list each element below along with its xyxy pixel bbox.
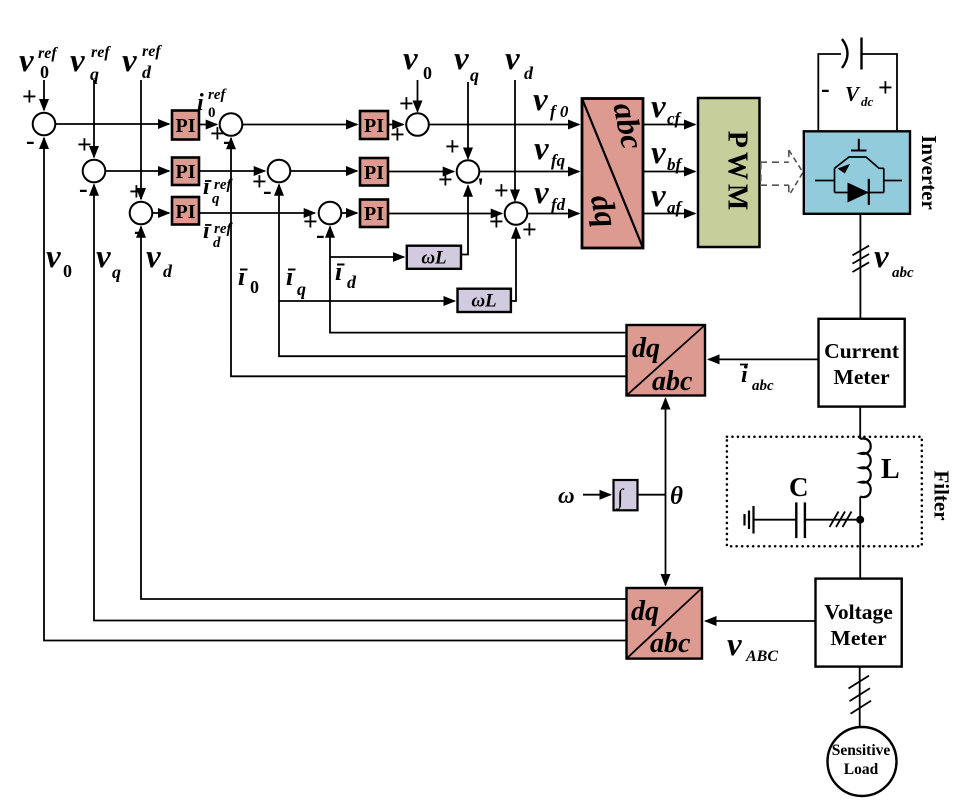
svg-text:v: v xyxy=(727,627,742,663)
current meter block xyxy=(819,319,905,407)
svg-text:': ' xyxy=(477,173,484,202)
svg-text:q: q xyxy=(297,279,306,299)
node three-phase slashes on capacitor branch xyxy=(830,512,852,528)
svg-text:af: af xyxy=(667,198,684,217)
PI controller PI2 xyxy=(172,158,199,186)
wire v0 feedback from dq/abc to summer S1 xyxy=(44,138,627,641)
node v_f0 label xyxy=(533,82,569,121)
wire S3 to PI3 xyxy=(152,212,169,214)
IGBT gate xyxy=(851,139,867,151)
svg-text:fq: fq xyxy=(551,151,566,170)
svg-text:+: + xyxy=(522,215,537,244)
integrator block xyxy=(614,480,638,510)
filter dotted box xyxy=(727,437,922,547)
wire vq down into S8 xyxy=(467,82,469,159)
node iq bar label xyxy=(286,262,306,299)
svg-text:q: q xyxy=(112,262,121,282)
svg-text:Meter: Meter xyxy=(831,626,888,650)
summer S2 (vq) xyxy=(83,160,106,183)
svg-text:-: - xyxy=(79,174,88,203)
node vd feedforward label xyxy=(505,41,534,83)
wire omega to integrator xyxy=(583,494,611,496)
svg-text:v: v xyxy=(70,43,85,79)
sensitive load xyxy=(828,727,897,796)
gain block omega-L 1 xyxy=(407,246,461,269)
svg-text:C: C xyxy=(789,472,809,502)
gain block omega-L 2 xyxy=(458,289,511,312)
wire integrator to theta line xyxy=(638,494,666,496)
wire vd_ref down arrow xyxy=(140,80,142,199)
PI controller PI5 xyxy=(360,158,388,186)
node vq feedforward label xyxy=(454,41,479,85)
svg-text:+: + xyxy=(399,89,414,118)
svg-text:PI: PI xyxy=(176,115,196,137)
node id_ref label xyxy=(203,218,233,251)
svg-text:ı: ı xyxy=(203,174,210,200)
svg-text:θ: θ xyxy=(670,483,683,510)
wire PI3 to summer S6 xyxy=(199,212,315,214)
svg-text:q: q xyxy=(212,191,220,207)
svg-text:L: L xyxy=(881,454,900,485)
svg-text:cf: cf xyxy=(667,109,683,128)
svg-text:+: + xyxy=(77,130,92,159)
wire inverter to current meter xyxy=(859,214,861,319)
svg-text:Voltage: Voltage xyxy=(824,600,892,624)
wire id branch to omega-L 1 xyxy=(330,256,404,258)
svg-text:v: v xyxy=(534,131,549,167)
svg-text:bf: bf xyxy=(667,155,684,174)
IGBT emitter arrow xyxy=(838,164,851,174)
wire theta vertical up into dq/abc currents xyxy=(665,399,667,495)
svg-text:abc: abc xyxy=(650,628,691,659)
transform block dq/abc (currents) xyxy=(627,325,706,397)
transform block dq/abc (voltages) xyxy=(627,588,703,659)
summer S8 (vfq) xyxy=(457,160,480,183)
node three-phase slashes on v_abc wire xyxy=(853,246,870,272)
wire current meter to dq/abc current transform with i_abc xyxy=(709,358,819,360)
dashed gate-signal block arrow PWM to Inverter xyxy=(760,150,803,196)
node three-phase slashes above load xyxy=(849,676,872,714)
svg-text:q: q xyxy=(470,65,479,85)
node v_fd label xyxy=(534,175,566,214)
wire capacitor to ground xyxy=(755,519,797,521)
svg-text:ı: ı xyxy=(238,262,245,291)
wire current meter down to inductor xyxy=(859,407,861,439)
diode D1 xyxy=(848,179,869,205)
svg-text:0: 0 xyxy=(250,277,259,297)
svg-text:v: v xyxy=(533,82,548,118)
wire S7 to abc/dq block with vf0 xyxy=(429,124,579,126)
node junction dot xyxy=(856,516,864,524)
node id bar label xyxy=(335,257,357,292)
node v0 feedback label xyxy=(46,239,72,281)
svg-text:+: + xyxy=(390,120,405,149)
svg-text:Inverter: Inverter xyxy=(917,135,941,210)
wire v0 down into S7 xyxy=(417,80,419,112)
svg-text:PWM: PWM xyxy=(722,131,753,215)
svg-text:ref: ref xyxy=(91,44,111,61)
node v_af label xyxy=(651,178,684,217)
svg-text:v: v xyxy=(651,135,666,171)
inductor L coil xyxy=(860,439,871,498)
svg-text:PI: PI xyxy=(176,161,196,183)
svg-text:abc: abc xyxy=(892,265,914,281)
svg-text:PI: PI xyxy=(176,201,196,223)
svg-text:v: v xyxy=(505,41,520,77)
wire iq feedback from dq/abc to summer S5 xyxy=(279,185,627,356)
svg-text:ABC: ABC xyxy=(745,648,778,665)
svg-text:0: 0 xyxy=(40,62,49,82)
wire vd down into S9 xyxy=(514,80,516,201)
svg-text:v: v xyxy=(534,175,549,211)
svg-text:ı: ı xyxy=(203,218,210,244)
svg-text:v: v xyxy=(651,89,666,125)
svg-text:ı: ı xyxy=(335,257,342,286)
summer S5 (iq) xyxy=(268,160,291,183)
svg-text:abc: abc xyxy=(652,366,693,397)
svg-text:f 0: f 0 xyxy=(550,102,569,121)
voltage meter block xyxy=(816,579,902,667)
wire id feedback from dq/abc to summer S6 xyxy=(330,227,627,333)
summer S6 (id) xyxy=(319,202,342,225)
node i0_ref label xyxy=(197,87,227,121)
svg-text:Load: Load xyxy=(844,761,879,778)
svg-text:+: + xyxy=(489,207,504,236)
svg-text:d: d xyxy=(213,235,221,251)
node v_bf label xyxy=(651,135,684,174)
PWM block xyxy=(698,98,760,247)
svg-text:v: v xyxy=(46,239,61,275)
svg-text:ωL: ωL xyxy=(421,248,446,269)
svg-text:v: v xyxy=(454,41,469,77)
svg-text:Filter: Filter xyxy=(930,470,954,520)
summer S9 (vfd) xyxy=(505,202,528,225)
node v_abc label xyxy=(874,239,914,281)
summer S1 (v0) xyxy=(33,113,56,136)
capacitor C plates xyxy=(796,502,805,538)
inverter block xyxy=(804,131,910,214)
wire Vdc loop xyxy=(818,54,897,131)
svg-text:v: v xyxy=(651,178,666,214)
node v_cf label xyxy=(651,89,683,128)
wire S4 to PI4 xyxy=(242,124,357,126)
PI controller PI1 xyxy=(172,111,199,140)
wire iq branch to omega-L 2 xyxy=(279,300,455,302)
PI controller PI6 xyxy=(360,200,388,228)
node vq feedback label xyxy=(96,239,121,282)
transform block abc/dq (modulation) xyxy=(582,99,651,249)
wire abc/dq to PWM vcf xyxy=(643,124,695,126)
wire S1 to PI1 xyxy=(55,123,169,125)
wire vq_ref down arrow xyxy=(93,80,95,157)
svg-text:d: d xyxy=(142,62,152,82)
svg-text:Sensitive: Sensitive xyxy=(832,742,891,759)
wire v0_ref down arrow xyxy=(43,80,45,110)
node i0 bar label xyxy=(238,262,259,297)
wire junction to capacitor branch xyxy=(806,519,861,521)
svg-text:-: - xyxy=(316,220,325,249)
ground symbol xyxy=(745,506,754,534)
svg-text:+: + xyxy=(878,73,893,102)
svg-text:i: i xyxy=(197,90,204,116)
svg-text:dq: dq xyxy=(632,333,660,364)
svg-text:-: - xyxy=(26,126,35,155)
summer S7 (vf0) xyxy=(406,113,429,136)
wire PI1 to summer S4 xyxy=(199,124,217,126)
svg-text:v: v xyxy=(96,239,111,275)
node v_d_ref input label xyxy=(122,43,162,82)
svg-text:-: - xyxy=(263,176,272,205)
wire S5 to PI5 xyxy=(290,170,357,172)
svg-text:+: + xyxy=(445,132,460,161)
node v_fq label xyxy=(534,131,566,170)
svg-text:Current: Current xyxy=(824,339,900,363)
wire PI6 to summer S9 xyxy=(388,213,502,215)
wire omega-L 2 to summer S9 xyxy=(511,228,516,301)
svg-text:d: d xyxy=(163,261,173,281)
svg-text:v: v xyxy=(19,43,34,79)
node v_ABC label xyxy=(727,627,778,665)
node v_q_ref input label xyxy=(70,43,111,84)
wire S8 to abc/dq block with vfq xyxy=(479,171,579,173)
svg-text:v: v xyxy=(146,239,161,275)
node i_abc label xyxy=(740,362,774,394)
svg-text:dq: dq xyxy=(631,596,659,627)
node Vdc label xyxy=(821,73,893,109)
wire voltage meter down to sensitive load xyxy=(859,667,861,728)
svg-text:i: i xyxy=(741,362,748,388)
svg-text:ωL: ωL xyxy=(471,291,496,312)
wire S9 to abc/dq block with vfd xyxy=(527,213,579,215)
node iq_ref label xyxy=(203,174,233,207)
svg-text:v: v xyxy=(122,43,137,79)
svg-text:v: v xyxy=(874,239,889,275)
svg-text:-: - xyxy=(821,74,830,103)
wire theta vertical down into dq/abc voltages xyxy=(665,495,667,585)
wire S6 to PI6 xyxy=(341,212,357,214)
svg-text:PI: PI xyxy=(364,115,384,137)
svg-text:ref: ref xyxy=(208,87,227,103)
IGBT with freewheeling diode xyxy=(815,157,902,193)
summer S3 (vd) xyxy=(130,202,153,225)
svg-text:abc: abc xyxy=(752,378,774,394)
svg-text:ı: ı xyxy=(286,262,293,291)
node vd feedback label xyxy=(146,239,173,281)
PI controller PI4 xyxy=(360,111,388,139)
summer S4 (i0) xyxy=(220,113,243,136)
svg-text:d: d xyxy=(347,272,357,292)
wire vd feedback from dq/abc to summer S3 xyxy=(141,227,627,599)
wire vq feedback from dq/abc to summer S2 xyxy=(94,185,627,621)
svg-text:+: + xyxy=(22,82,37,111)
wire abc/dq to PWM vbf xyxy=(643,171,695,173)
wire abc/dq to PWM vaf xyxy=(643,213,695,215)
svg-text:ω: ω xyxy=(558,483,575,508)
svg-text:dc: dc xyxy=(861,94,874,109)
wire PI2 to summer S5 xyxy=(199,170,265,172)
node v0 feedforward label xyxy=(403,41,432,83)
node v0_ref input label xyxy=(19,43,58,82)
svg-text:fd: fd xyxy=(551,195,566,214)
svg-text:+: + xyxy=(438,165,453,194)
svg-text:ref: ref xyxy=(142,43,162,60)
wire S2 to PI2 xyxy=(105,170,169,172)
svg-text:+: + xyxy=(494,176,509,205)
capacitor C_dc xyxy=(842,38,862,70)
PI controller PI3 xyxy=(172,197,199,225)
wire i0 feedback from dq/abc to summer S4 xyxy=(231,138,627,376)
wire coil to junction to voltage meter xyxy=(859,497,861,579)
svg-text:PI: PI xyxy=(364,162,384,184)
svg-text:Meter: Meter xyxy=(834,365,891,389)
svg-text:V: V xyxy=(845,82,861,106)
svg-text:ref: ref xyxy=(38,45,58,62)
wire PI4 to summer S7 xyxy=(388,124,403,126)
svg-text:0: 0 xyxy=(423,63,432,83)
svg-text:0: 0 xyxy=(63,261,72,281)
wire omega-L 1 to summer S8 xyxy=(461,186,468,255)
wire PI5 to summer S8 xyxy=(388,171,454,173)
svg-text:v: v xyxy=(403,41,418,77)
svg-text:PI: PI xyxy=(364,203,384,225)
wire voltage meter to dq/abc voltage transform with v_ABC xyxy=(706,620,816,622)
svg-text:d: d xyxy=(524,63,534,83)
